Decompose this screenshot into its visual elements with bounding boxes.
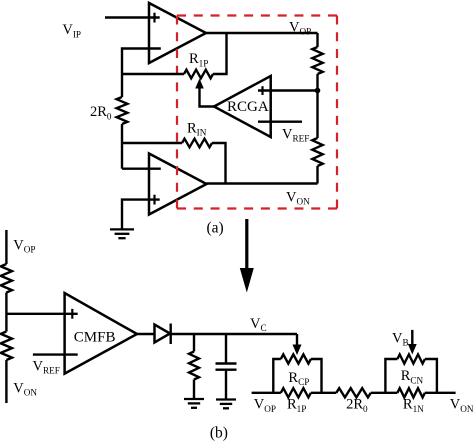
svg-text:(b): (b): [210, 424, 228, 441]
svg-text:VIP: VIP: [62, 22, 81, 39]
svg-text:VOP: VOP: [289, 20, 311, 37]
svg-text:2R0: 2R0: [90, 104, 112, 121]
svg-text:VOP: VOP: [13, 238, 35, 255]
svg-text:RCP: RCP: [288, 370, 309, 387]
svg-text:2R0: 2R0: [346, 397, 368, 414]
svg-text:CMFB: CMFB: [74, 329, 116, 345]
svg-text:VON: VON: [13, 381, 37, 398]
svg-text:RCN: RCN: [401, 368, 424, 385]
svg-text:VREF: VREF: [33, 359, 60, 376]
svg-text:RCGA: RCGA: [227, 99, 269, 115]
svg-text:RIN: RIN: [187, 121, 207, 138]
svg-text:VOP: VOP: [254, 397, 276, 414]
svg-text:VON: VON: [286, 190, 310, 207]
svg-text:(a): (a): [207, 220, 224, 237]
svg-text:VB: VB: [392, 331, 409, 348]
svg-text:VON: VON: [450, 397, 474, 414]
svg-text:VC: VC: [250, 316, 267, 333]
svg-text:VREF: VREF: [282, 127, 309, 144]
svg-text:R1P: R1P: [287, 397, 306, 414]
svg-text:R1P: R1P: [189, 51, 208, 68]
